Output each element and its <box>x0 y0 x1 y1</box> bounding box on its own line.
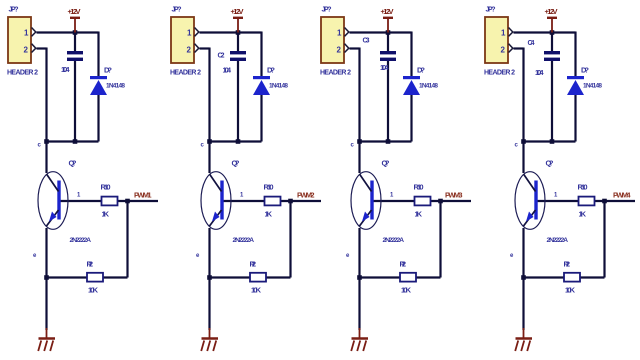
svg-text:+12V: +12V <box>381 7 394 16</box>
svg-text:+12V: +12V <box>68 7 81 16</box>
svg-text:+12V: +12V <box>231 7 244 16</box>
svg-text:C4: C4 <box>528 40 535 47</box>
svg-text:104: 104 <box>223 66 232 75</box>
svg-text:PWM4: PWM4 <box>613 191 631 200</box>
svg-text:+12V: +12V <box>545 7 558 16</box>
svg-text:104: 104 <box>61 65 70 74</box>
svg-text:PWM3: PWM3 <box>445 191 463 200</box>
svg-text:PWM2: PWM2 <box>297 191 315 200</box>
svg-text:PWM1: PWM1 <box>134 191 152 200</box>
svg-text:104: 104 <box>535 68 544 77</box>
svg-text:C3: C3 <box>363 38 370 45</box>
svg-text:C2: C2 <box>218 53 225 60</box>
svg-text:104: 104 <box>380 63 389 72</box>
